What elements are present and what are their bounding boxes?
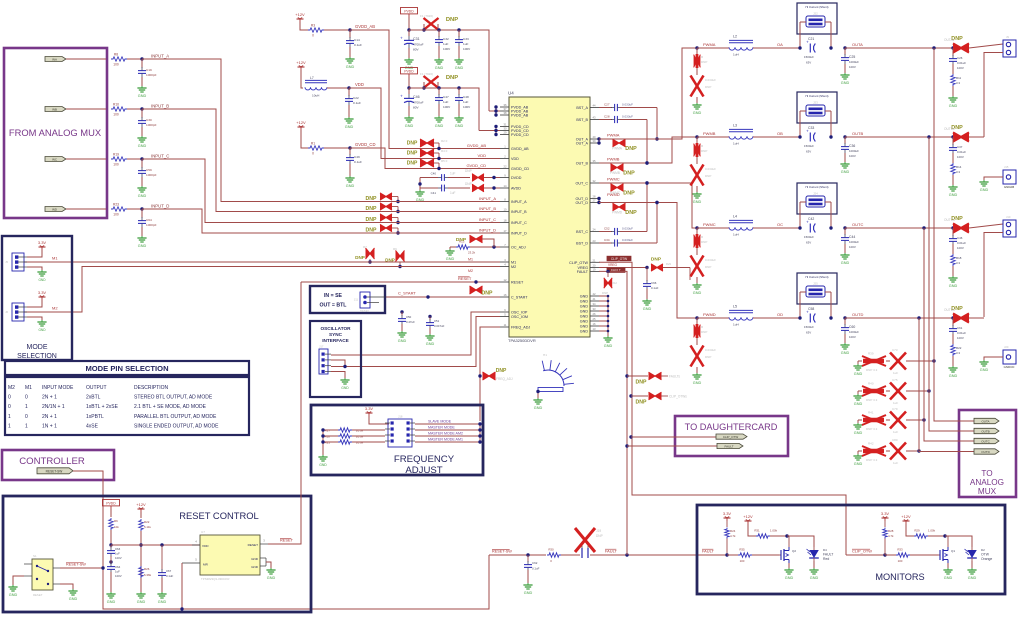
- node junction INPUT_A: [140, 57, 143, 60]
- svg-text:GND: GND: [580, 315, 589, 319]
- node: [943, 534, 946, 537]
- svg-text:1500uF: 1500uF: [804, 55, 814, 59]
- node net label SLAVE MODE: [428, 420, 452, 424]
- resistor R31: [754, 529, 787, 539]
- wire PVDD stub PVDD_CD: [408, 77, 410, 88]
- svg-text:R7: R7: [363, 245, 367, 249]
- resistor DNP VREG: [651, 264, 690, 280]
- svg-text:M2: M2: [468, 269, 473, 273]
- resistor R26: [139, 566, 152, 578]
- svg-text:0.033uF: 0.033uF: [705, 78, 716, 82]
- svg-text:OUTC: OUTC: [852, 222, 863, 227]
- node: [101, 566, 104, 569]
- wire: [401, 324, 403, 331]
- svg-text:INPUT_A: INPUT_A: [511, 200, 527, 204]
- wire: [753, 136, 800, 138]
- svg-text:PVDD: PVDD: [106, 502, 116, 506]
- connector J11: [354, 292, 385, 313]
- fuse DNP PVDD_CD: [420, 72, 439, 88]
- node: [457, 86, 460, 89]
- svg-text:C59: C59: [146, 168, 152, 172]
- svg-text:INPUT_D: INPUT_D: [479, 228, 496, 233]
- ground: [157, 592, 166, 604]
- node: [922, 226, 925, 229]
- svg-text:INPUT_D: INPUT_D: [151, 203, 169, 208]
- svg-text:3.3: 3.3: [956, 81, 960, 85]
- node: [645, 161, 648, 164]
- svg-text:1uH: 1uH: [733, 233, 739, 237]
- svg-text:C63: C63: [115, 547, 121, 551]
- sheet box Hi Current Shunt OB: [797, 92, 837, 123]
- svg-text:C64: C64: [146, 218, 152, 222]
- svg-text:1uF: 1uF: [115, 552, 120, 556]
- svg-text:Hi Current (Shunt): Hi Current (Shunt): [806, 185, 829, 189]
- svg-text:0.1uF: 0.1uF: [532, 567, 540, 571]
- capacitor DNP snubber OC: [691, 248, 717, 277]
- wire R18 left: [323, 435, 338, 437]
- wire net VREG: [599, 267, 647, 269]
- sheet box Hi Current Shunt OC: [797, 183, 837, 214]
- svg-text:F1 (7920): F1 (7920): [420, 14, 433, 18]
- svg-text:3.3V: 3.3V: [38, 290, 47, 295]
- node PWM node OD: [695, 316, 698, 319]
- svg-text:DNP 3.3: DNP 3.3: [866, 458, 878, 462]
- svg-text:OSC_IOM: OSC_IOM: [511, 315, 528, 319]
- node: [645, 181, 648, 184]
- wire: [110, 530, 112, 545]
- wire to J10: [969, 224, 1003, 228]
- sheet box TO DAUGHTERCARD: [675, 416, 788, 456]
- svg-text:M1: M1: [511, 261, 516, 265]
- wire J5 pin2 stub: [27, 261, 40, 263]
- wire tie from pin2: [969, 136, 984, 138]
- svg-text:MODE: MODE: [27, 344, 48, 351]
- svg-text:1uF: 1uF: [893, 371, 898, 375]
- svg-text:DNP: DNP: [596, 534, 603, 538]
- wire net INPUT_B to IC: [376, 211, 500, 213]
- svg-text:J24: J24: [813, 192, 818, 196]
- wire C30 to gnd: [141, 127, 143, 136]
- svg-text:C49: C49: [354, 155, 360, 159]
- capacitor C36: [841, 137, 859, 158]
- svg-text:31: 31: [504, 123, 507, 127]
- svg-text:0.033uF: 0.033uF: [705, 348, 716, 352]
- svg-text:+12V: +12V: [296, 60, 306, 65]
- ground: [979, 180, 988, 192]
- svg-text:FAULT: FAULT: [823, 553, 833, 557]
- svg-text:J9: J9: [1006, 35, 1009, 39]
- svg-text:DVDD: DVDD: [511, 176, 522, 180]
- node: [829, 226, 832, 229]
- svg-text:RESET CONTROL: RESET CONTROL: [179, 510, 259, 521]
- wire +12V to R3: [300, 22, 308, 30]
- capacitor C41: [420, 185, 470, 195]
- capacitor C59: [138, 159, 157, 177]
- svg-text:R39: R39: [868, 352, 874, 356]
- wire +12V to L7: [301, 70, 303, 88]
- node net label C_START: [398, 291, 416, 296]
- svg-text:FROM ANALOG MUX: FROM ANALOG MUX: [9, 127, 102, 138]
- wire C14 to gnd: [349, 47, 351, 57]
- label FREQUENCY ADJUST: [394, 454, 455, 476]
- svg-text:DNP: DNP: [355, 255, 365, 260]
- resistor DNP M2 pull: [396, 251, 405, 269]
- node junction GVDD_AB: [348, 28, 351, 31]
- node: [474, 280, 477, 283]
- svg-text:C_START: C_START: [398, 291, 416, 296]
- wire: [429, 328, 431, 334]
- svg-text:FREQ_ADJ: FREQ_ADJ: [511, 326, 530, 330]
- node: [139, 543, 142, 546]
- wire net MASTER MODE AM1: [415, 441, 480, 443]
- wire S1 gnd wire: [13, 576, 24, 585]
- sheet box MODE SELECTION: [2, 236, 72, 360]
- capacitor C46: [949, 228, 966, 250]
- svg-text:DNP: DNP: [456, 237, 467, 243]
- svg-text:R2 0: R2 0: [441, 139, 448, 143]
- wire R21 to J18: [352, 441, 385, 443]
- svg-text:+12V: +12V: [295, 12, 305, 17]
- wire net INPUT_A to IC: [376, 201, 500, 203]
- U4 left pins: [500, 103, 530, 330]
- wire controller to reset: [73, 471, 489, 609]
- svg-text:MONITORS: MONITORS: [875, 572, 924, 582]
- ground: [642, 299, 651, 311]
- svg-text:38: 38: [504, 111, 507, 115]
- svg-text:TO: TO: [981, 469, 992, 478]
- svg-text:1000pF: 1000pF: [146, 123, 157, 127]
- node: [829, 135, 832, 138]
- svg-text:TPS3823Q3-33DCKR: TPS3823Q3-33DCKR: [201, 577, 229, 581]
- svg-text:OUTAs: OUTAs: [944, 38, 955, 42]
- inductor L7: [305, 76, 327, 98]
- diode D4: [807, 547, 834, 561]
- node: [951, 135, 954, 138]
- svg-text:4.7k: 4.7k: [730, 534, 736, 538]
- node net label INPUT_B: [151, 103, 169, 108]
- svg-text:GND: GND: [693, 111, 702, 115]
- wire net GVDD_CD run: [350, 148, 500, 169]
- svg-text:OUTCs: OUTCs: [944, 218, 955, 222]
- resistor R17: [325, 428, 364, 433]
- svg-text:GND: GND: [643, 307, 652, 311]
- wire R17 left: [323, 429, 338, 431]
- svg-text:C22: C22: [353, 96, 359, 100]
- svg-text:GND: GND: [693, 291, 702, 295]
- svg-text:0: 0: [312, 152, 314, 156]
- svg-text:GND: GND: [524, 591, 533, 595]
- node: [492, 245, 495, 248]
- svg-text:GND: GND: [604, 344, 613, 348]
- wire J9 pin2 drop: [984, 53, 1003, 138]
- svg-text:1uH: 1uH: [733, 142, 739, 146]
- svg-text:INPUT_D: INPUT_D: [511, 232, 527, 236]
- node net label MASTER MODE AM2: [428, 432, 463, 436]
- capacitor C63: [107, 545, 122, 560]
- ground: [979, 360, 988, 372]
- svg-text:OA: OA: [777, 42, 783, 47]
- svg-text:1uF: 1uF: [450, 172, 456, 176]
- svg-text:0.01uF: 0.01uF: [957, 241, 966, 245]
- wire: [696, 186, 698, 192]
- svg-text:M1: M1: [468, 258, 473, 262]
- resistor DNP INPUT_A: [380, 193, 400, 203]
- resistor DNP INPUT_B: [380, 203, 400, 213]
- capacitor C14: [346, 30, 362, 47]
- wire IND to R23: [66, 208, 106, 210]
- power flag PVDD: [401, 8, 418, 18]
- power flag 3.3V: [38, 240, 47, 250]
- svg-text:3.3V: 3.3V: [365, 406, 374, 411]
- svg-text:M1: M1: [52, 256, 58, 261]
- wire H1 gnd: [536, 390, 539, 398]
- svg-text:100: 100: [113, 213, 119, 217]
- capacitor C22: [345, 88, 361, 105]
- wire shunt taps OD: [800, 292, 831, 318]
- svg-text:OUTA: OUTA: [852, 42, 863, 47]
- svg-text:DNP: DNP: [636, 380, 647, 386]
- connector J17: [319, 345, 331, 375]
- svg-text:C47: C47: [443, 95, 449, 99]
- power flag +12V: [136, 502, 146, 512]
- ground: [136, 592, 145, 604]
- svg-text:INPUT_C: INPUT_C: [511, 221, 527, 225]
- node: [160, 543, 163, 546]
- svg-text:R10: R10: [113, 103, 119, 107]
- node net label RESET-SW at S1: [66, 563, 86, 567]
- wire net PWMC run: [599, 183, 697, 228]
- svg-text:10uH: 10uH: [312, 94, 319, 98]
- wire: [110, 509, 112, 517]
- svg-text:GND: GND: [949, 374, 958, 378]
- svg-text:C52: C52: [604, 226, 610, 230]
- capacitor DNP C80: [886, 438, 906, 465]
- svg-text:23: 23: [593, 239, 596, 243]
- svg-text:PVDD_CD: PVDD_CD: [511, 133, 529, 137]
- connector J15: [1003, 165, 1016, 189]
- svg-text:C21: C21: [808, 37, 814, 41]
- svg-text:100V: 100V: [957, 336, 964, 340]
- svg-text:1uF: 1uF: [443, 100, 448, 104]
- svg-text:PWMA: PWMA: [703, 42, 716, 47]
- svg-text:PWMD: PWMD: [607, 192, 620, 197]
- svg-text:GND: GND: [580, 305, 589, 309]
- ground: [434, 58, 443, 70]
- node: [917, 316, 920, 319]
- node: [843, 46, 846, 49]
- svg-text:DNP: DNP: [602, 291, 608, 295]
- node: [843, 226, 846, 229]
- svg-text:DNP: DNP: [623, 191, 635, 197]
- ground: [425, 334, 434, 346]
- inductor L5: [729, 305, 753, 327]
- svg-text:R30: R30: [548, 548, 554, 552]
- node: [829, 316, 832, 319]
- svg-text:GND: GND: [346, 184, 355, 188]
- node net label GVDD_CD: [355, 142, 375, 147]
- ground: [434, 116, 443, 128]
- svg-text:J15: J15: [1004, 165, 1009, 169]
- wire: [906, 390, 929, 392]
- ground: [68, 589, 77, 601]
- node CLIP_OTW label: [607, 256, 631, 261]
- resistor DNP snubber OD: [694, 318, 708, 338]
- connector tag IND: [45, 207, 66, 212]
- heatsink H1: [538, 353, 574, 392]
- node: [645, 181, 648, 184]
- wire R1 to C49: [324, 147, 350, 149]
- ground: [137, 186, 146, 198]
- svg-text:R1: R1: [311, 142, 315, 146]
- svg-text:34: 34: [593, 302, 596, 306]
- svg-text:0.1uF: 0.1uF: [354, 43, 362, 47]
- svg-text:R18: R18: [956, 256, 962, 260]
- wire: [437, 82, 439, 88]
- svg-text:CLIP_OTWs: CLIP_OTWs: [669, 395, 687, 399]
- connector J23: [806, 101, 825, 117]
- ground: [137, 136, 146, 148]
- resistor DNP PWMB: [611, 164, 624, 172]
- svg-text:3.3V: 3.3V: [38, 240, 47, 245]
- wire: [697, 136, 729, 138]
- svg-text:100: 100: [898, 559, 903, 563]
- svg-text:DNP: DNP: [623, 171, 635, 177]
- svg-text:GND: GND: [580, 320, 589, 324]
- svg-text:OUTB: OUTB: [981, 430, 989, 434]
- connector tag INA: [45, 57, 66, 62]
- resistor DNP R42: [858, 442, 886, 463]
- svg-text:Hi Current (Shunt): Hi Current (Shunt): [806, 94, 829, 98]
- svg-text:0: 0: [8, 395, 11, 401]
- svg-text:ADJUST: ADJUST: [405, 465, 442, 476]
- wire to J9: [969, 44, 1003, 48]
- svg-text:C34: C34: [604, 238, 610, 242]
- resistor DNP AVDD: [472, 184, 500, 192]
- ground: [345, 57, 354, 69]
- capacitor DNP C73: [886, 348, 906, 375]
- svg-text:3.3: 3.3: [956, 170, 960, 174]
- svg-text:R29: R29: [914, 529, 920, 533]
- svg-text:VDD: VDD: [202, 544, 209, 548]
- wire mode bus: [478, 422, 481, 443]
- ground: [415, 190, 424, 202]
- svg-text:J20: J20: [1004, 345, 1009, 349]
- ground: [37, 320, 46, 332]
- svg-text:DNP: DNP: [701, 149, 707, 153]
- svg-text:1: 1: [25, 404, 28, 410]
- svg-text:100: 100: [740, 559, 745, 563]
- svg-text:RESET-SW: RESET-SW: [66, 563, 86, 567]
- svg-text:0.47uF: 0.47uF: [406, 320, 415, 324]
- ground: [967, 568, 976, 580]
- wire: [438, 104, 440, 116]
- svg-text:R41: R41: [868, 411, 874, 415]
- ground: [840, 253, 849, 265]
- svg-text:GND: GND: [980, 188, 989, 192]
- resistor DNP INPUT_D: [380, 224, 400, 234]
- svg-text:3.3V: 3.3V: [723, 511, 732, 516]
- node: [645, 161, 648, 164]
- power flag +12V: [295, 12, 305, 22]
- resistor DNP M1 pull: [366, 248, 375, 264]
- ground: [318, 455, 327, 467]
- power flag PVDD: [401, 68, 418, 78]
- svg-text:R14: R14: [956, 165, 962, 169]
- resistor R24: [725, 521, 736, 555]
- node net label OUTC: [852, 222, 863, 227]
- wire: [140, 512, 142, 518]
- node FAULT label: [607, 268, 625, 273]
- ground: [948, 276, 957, 288]
- svg-text:PWMD: PWMD: [703, 312, 716, 317]
- node: [829, 46, 832, 49]
- svg-text:R6: R6: [114, 519, 118, 523]
- svg-text:4.7k: 4.7k: [888, 534, 894, 538]
- svg-text:0.01uF: 0.01uF: [957, 150, 966, 154]
- svg-text:1xBTL + 2xSE: 1xBTL + 2xSE: [86, 404, 119, 410]
- ground: [344, 117, 353, 129]
- connector J24: [806, 192, 825, 208]
- svg-text:L2: L2: [733, 35, 737, 39]
- node net label PWMB: [607, 157, 620, 162]
- svg-text:R8: R8: [114, 53, 118, 57]
- node net label PWMD: [607, 192, 620, 197]
- resistor R6: [109, 518, 119, 530]
- connector J22: [806, 12, 825, 28]
- node net label INPUT_D: [151, 203, 169, 208]
- node: [798, 135, 801, 138]
- wire R8 out: [127, 58, 142, 60]
- connector tag RESET-SW: [37, 468, 73, 474]
- svg-text:DNP: DNP: [701, 330, 707, 334]
- svg-text:37: 37: [504, 107, 507, 111]
- svg-text:PVDD_AB: PVDD_AB: [511, 114, 529, 118]
- wire net OSC_IOM: [331, 317, 500, 367]
- svg-text:RESET: RESET: [33, 593, 43, 597]
- svg-text:C61: C61: [957, 326, 963, 330]
- svg-text:PWMC: PWMC: [703, 222, 716, 227]
- wire: [906, 419, 924, 421]
- svg-text:BST_B: BST_B: [576, 118, 588, 122]
- wire J6 pin3 gnd: [27, 317, 42, 320]
- ground sense: [857, 451, 859, 454]
- svg-text:+: +: [400, 94, 403, 99]
- svg-text:INA: INA: [52, 57, 57, 61]
- node: [655, 137, 658, 140]
- connector tag OUTC mux: [974, 438, 999, 443]
- svg-text:J18: J18: [398, 415, 403, 419]
- node net label FAULT mon: [702, 548, 714, 553]
- svg-text:C36: C36: [849, 144, 855, 148]
- capacitor C42: [804, 217, 815, 245]
- capacitor DNP C79: [886, 407, 906, 434]
- wire net INPUT_D to IC: [376, 232, 500, 234]
- wire net PWMB run: [599, 137, 697, 163]
- svg-text:GND: GND: [693, 200, 702, 204]
- svg-text:63V: 63V: [806, 150, 811, 154]
- ground: [454, 58, 463, 70]
- capacitor C34: [599, 238, 657, 247]
- svg-text:GND: GND: [435, 124, 444, 128]
- svg-text:CLIP_OTW: CLIP_OTW: [569, 261, 588, 265]
- wire R ladder: [321, 428, 324, 455]
- svg-text:DNP: DNP: [407, 161, 418, 167]
- wire C59 to gnd: [141, 177, 143, 186]
- svg-text:C58: C58: [808, 307, 814, 311]
- svg-text:18: 18: [504, 219, 507, 223]
- svg-text:2.1 BTL + SE MODE, AD MODE: 2.1 BTL + SE MODE, AD MODE: [134, 404, 207, 410]
- ground: [397, 331, 406, 343]
